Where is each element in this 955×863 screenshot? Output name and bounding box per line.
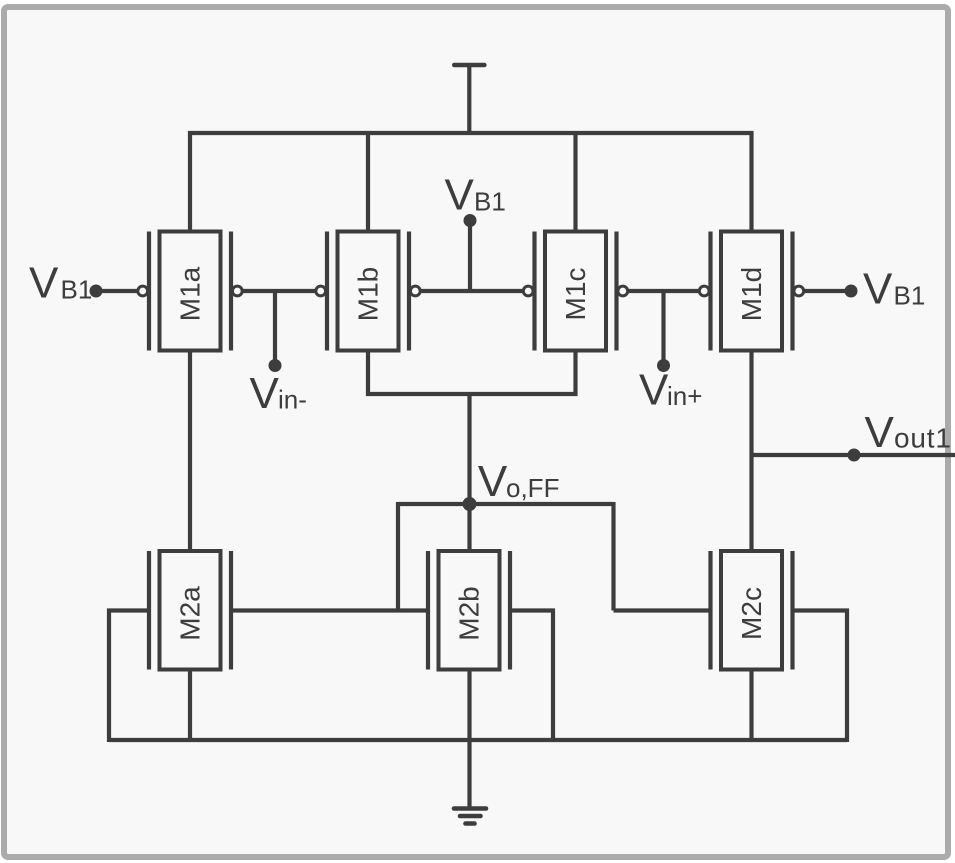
wire M1b drain down (366, 351, 370, 397)
wire M2c source pin (749, 670, 753, 741)
wire Vin+ stub (661, 291, 665, 366)
wire M1c right gate to M1d left gate (628, 289, 700, 293)
transistor M1d (699, 232, 803, 351)
wire tail stem to Vo,FF (467, 394, 471, 504)
svg-text:M1d: M1d (736, 267, 767, 321)
wire M1c top pin (573, 133, 577, 232)
label VB1 right (863, 265, 925, 314)
svg-text:V: V (29, 259, 59, 308)
transistor M1b (316, 232, 420, 351)
label Vin+ (639, 366, 702, 415)
wire Vo,FF horizontal (398, 502, 614, 506)
label Vout1 (865, 408, 952, 457)
transistor M1a (138, 232, 242, 351)
wire M1d top pin (749, 131, 753, 232)
svg-text:B1: B1 (474, 187, 506, 217)
transistor M2b (428, 551, 510, 670)
wire Vin- stub (273, 291, 277, 366)
wire M2c left gate (614, 608, 711, 612)
node Vin- terminal dot (269, 359, 282, 372)
wire top rail (188, 131, 754, 135)
wire M2b right gate down (510, 611, 553, 743)
ground (454, 809, 486, 824)
svg-text:V: V (863, 265, 893, 314)
wire Vo,FF left drop (396, 502, 400, 611)
wire VB1 center stub (468, 221, 472, 292)
node Vin+ terminal dot (657, 359, 670, 372)
wire M2a source pin (188, 670, 192, 741)
svg-text:V: V (478, 457, 508, 506)
label Vo,FF (478, 457, 560, 506)
svg-text:V: V (865, 408, 895, 457)
node VB1 left terminal dot (90, 285, 103, 298)
svg-text:M1a: M1a (175, 266, 206, 321)
wire M1b right gate to M1c left gate (420, 289, 523, 293)
node Vout1 dot (848, 449, 861, 462)
svg-text:B1: B1 (61, 275, 93, 305)
wire Vo,FF right drop (611, 502, 615, 611)
svg-text:M1c: M1c (560, 268, 591, 321)
label VB1 center (445, 171, 506, 220)
svg-text:in+: in+ (667, 381, 702, 411)
wire bottom rail (109, 738, 847, 742)
label Vin- (250, 369, 307, 418)
wire M1c drain down (573, 351, 577, 397)
svg-text:V: V (639, 366, 669, 415)
wire M2c right gate down (793, 611, 848, 743)
wire tail rail (366, 392, 578, 396)
svg-text:M2b: M2b (454, 586, 485, 640)
node VB1 center terminal dot (464, 214, 477, 227)
wire M2a left gate to bottom rail (109, 611, 149, 743)
node Vo,FF dot (463, 497, 477, 511)
svg-text:in-: in- (278, 385, 307, 415)
supply VDD symbol (454, 65, 484, 135)
wire M1d drain down to M2c (749, 351, 753, 552)
svg-text:M2c: M2c (736, 587, 767, 640)
svg-text:M1b: M1b (353, 267, 384, 321)
wire M1a right gate to M1b left gate (242, 289, 316, 293)
svg-text:B1: B1 (894, 281, 926, 311)
wire M1a top pin (188, 131, 192, 232)
svg-text:M2a: M2a (175, 586, 206, 641)
wire M1a drain down to M2a (188, 351, 192, 552)
svg-text:o,FF: o,FF (506, 473, 559, 503)
wire VB1 left to M1a gate (96, 289, 138, 293)
wire M1b top pin (366, 133, 370, 232)
svg-text:out1: out1 (894, 423, 952, 454)
svg-text:V: V (250, 369, 280, 418)
wire M2a right gate to M2b left gate (231, 608, 428, 612)
wire Vout1 (752, 453, 955, 457)
svg-text:V: V (445, 171, 475, 220)
wire M1d right gate to VB1 right (804, 289, 851, 293)
node VB1 right terminal dot (845, 285, 858, 298)
transistor M2c (711, 551, 793, 670)
label VB1 left (29, 259, 92, 308)
wire M2b top pin (467, 504, 471, 551)
transistor M2a (149, 551, 231, 670)
wire M2b source pin to ground (467, 670, 471, 809)
transistor M1c (523, 232, 627, 351)
